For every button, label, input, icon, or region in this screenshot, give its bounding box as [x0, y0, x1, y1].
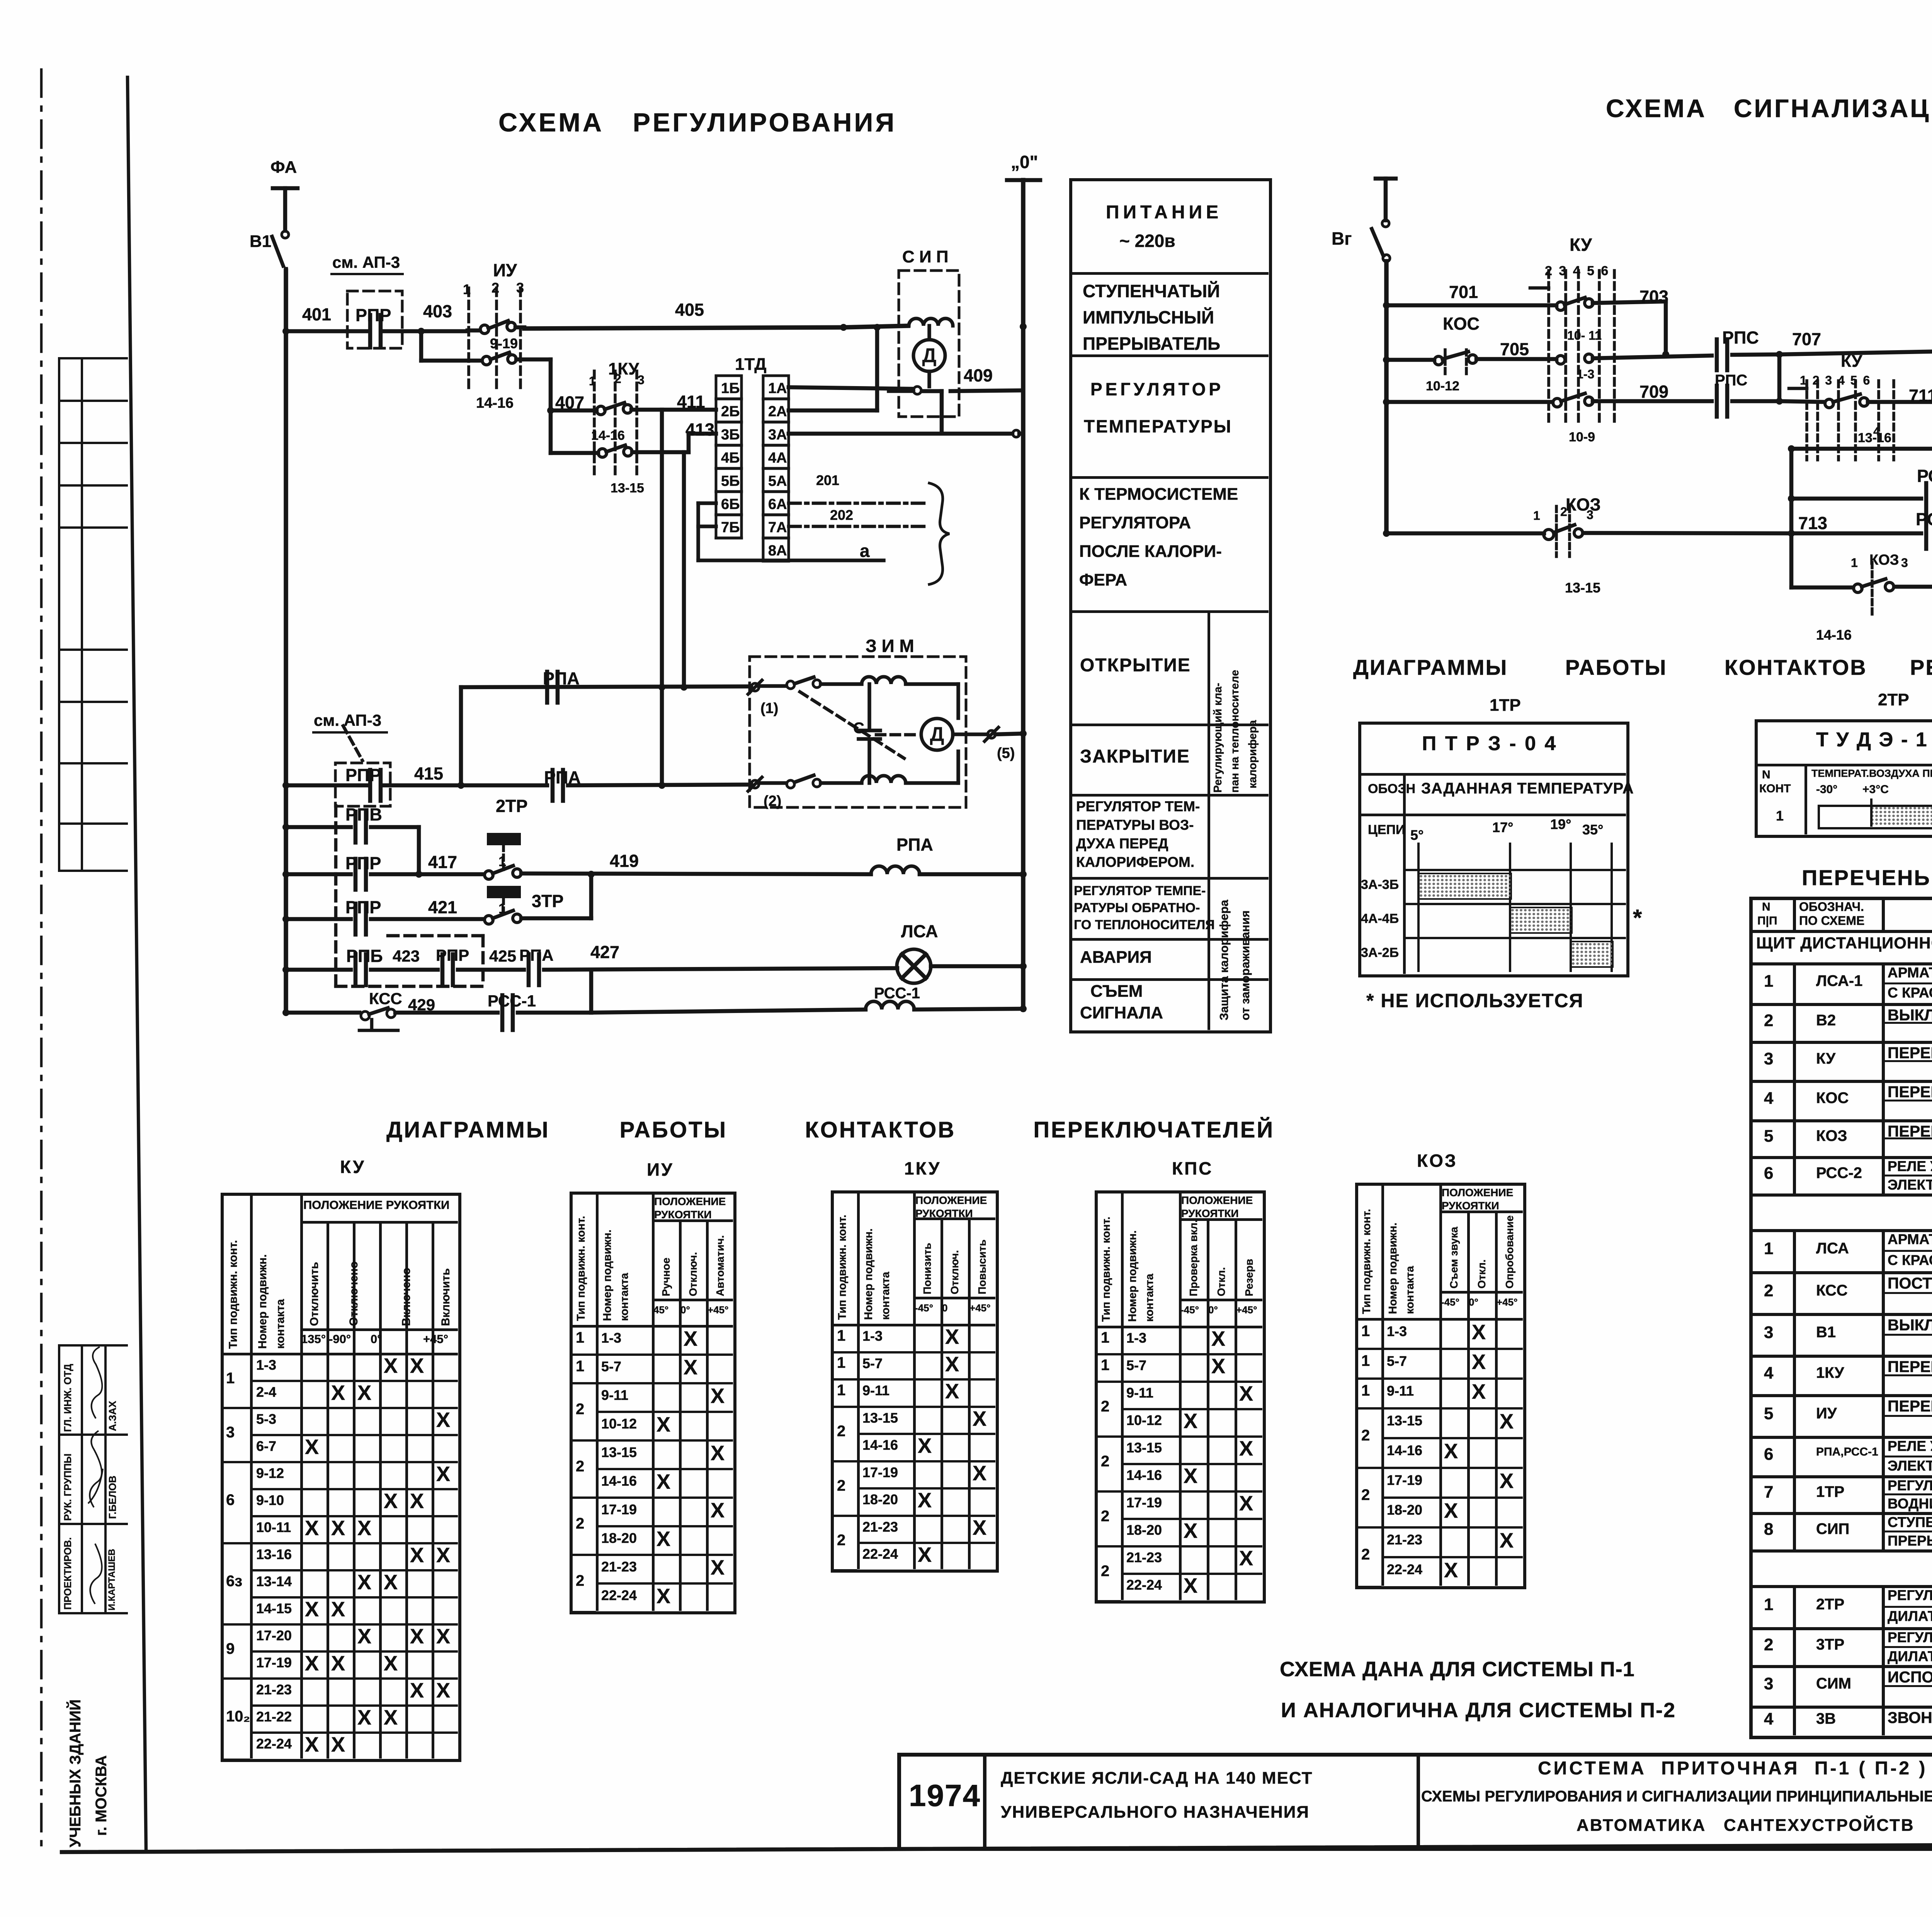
svg-text:Д: Д [930, 723, 944, 746]
svg-text:Д: Д [922, 344, 936, 367]
